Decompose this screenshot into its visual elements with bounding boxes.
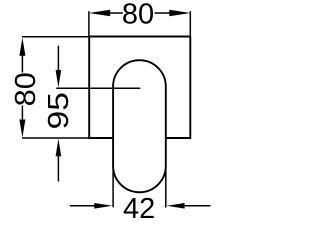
dim 42: dimension line left tail <box>70 205 96 207</box>
dim 95: upper line segment above down-arrow <box>57 46 59 71</box>
plate outline (80x80 square, bottom edge interrupted by slot) <box>89 37 190 139</box>
extension line left of 42 dim (slot left side extended) <box>112 166 114 207</box>
left dim 80: dimension line upper segment <box>21 55 23 73</box>
top dim 80: dimension line left segment <box>110 12 123 14</box>
svg-text:80: 80 <box>10 72 42 106</box>
left dim 80: top extension line <box>22 36 89 38</box>
left dim 80: bottom extension line <box>22 137 89 139</box>
left dim 80: bottom arrowhead <box>19 120 25 138</box>
dim 42: left arrowhead (pointing right) <box>94 203 112 209</box>
svg-text:80: 80 <box>122 0 154 30</box>
slot centre line / 95 top extension line <box>56 87 140 89</box>
dim 42: right arrowhead (pointing left) <box>167 203 185 209</box>
dim 95: up arrowhead (tip on bottom extension line) <box>56 139 62 157</box>
dim 42: dimension line right tail <box>184 205 211 207</box>
slot right side <box>165 87 167 166</box>
slot bottom arc <box>113 166 166 192</box>
dim 95: down arrowhead (tip on centre line) <box>56 70 62 88</box>
left dim 80: dimension line lower segment <box>21 106 23 121</box>
slot left side <box>112 87 114 166</box>
extension line right of 42 dim (slot right side extended) <box>165 166 167 208</box>
top dim 80: left extension line <box>88 11 90 36</box>
dim 95: lower line segment below up-arrow <box>57 156 59 182</box>
svg-text:42: 42 <box>123 193 155 220</box>
top dim 80: right arrowhead <box>169 10 190 17</box>
top dim 80: dimension line right segment <box>155 12 171 14</box>
slot top arc <box>113 60 166 86</box>
left dim 80: top arrowhead <box>19 38 25 56</box>
svg-text:95: 95 <box>42 92 74 129</box>
top dim 80: right extension line <box>189 11 191 36</box>
top dim 80: left arrowhead <box>89 10 110 17</box>
